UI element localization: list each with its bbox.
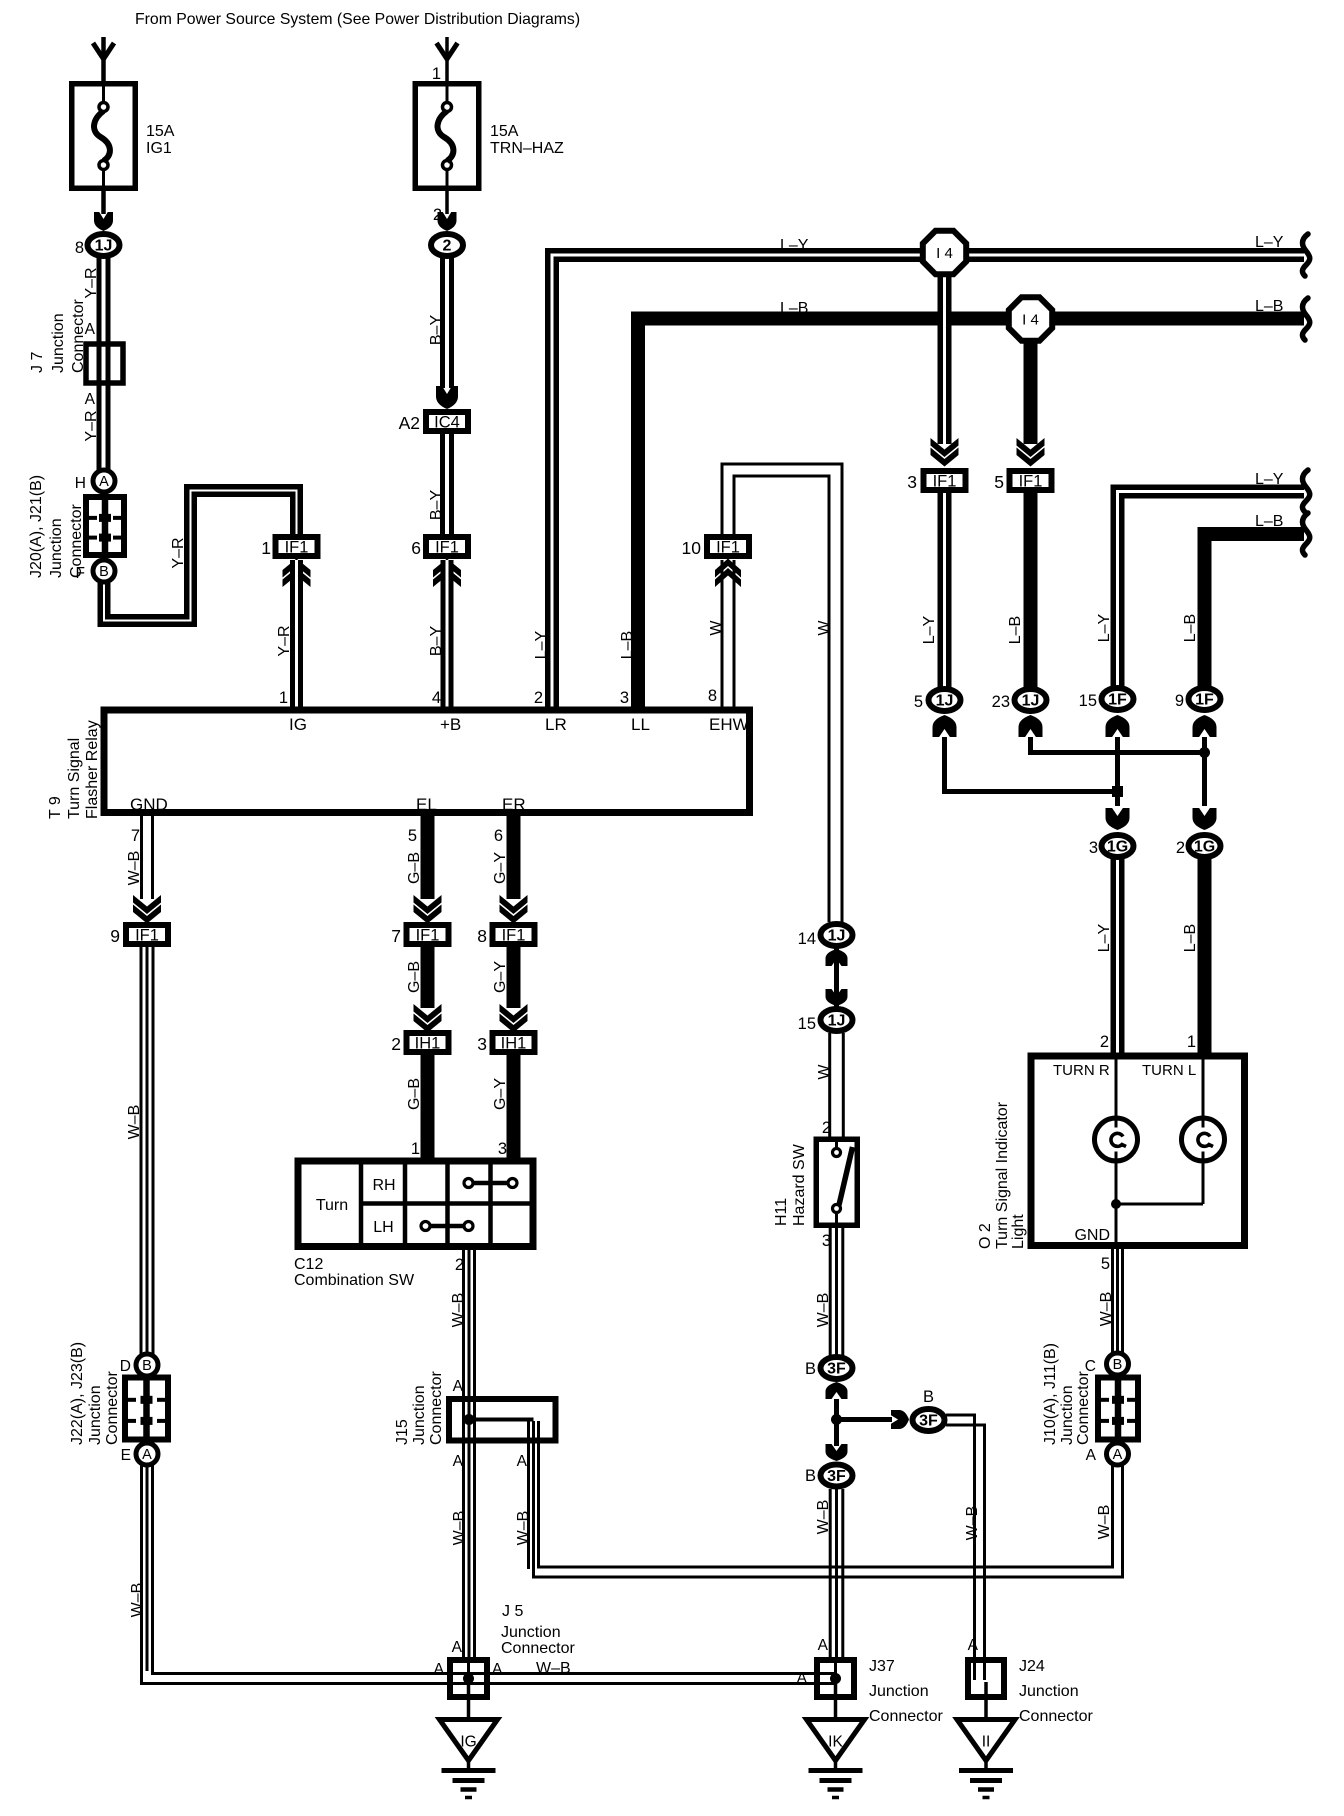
node junction L-B links [1199, 747, 1210, 758]
svg-text:1: 1 [411, 1140, 420, 1158]
wire W-B junction J5 to junction J37 [444, 1672, 834, 1675]
svg-text:A: A [492, 1661, 503, 1678]
svg-text:L–Y: L–Y [780, 237, 809, 254]
svg-text:6: 6 [494, 827, 503, 845]
svg-text:Connector: Connector [1019, 1708, 1093, 1725]
svg-text:J 5: J 5 [502, 1603, 523, 1620]
svg-text:B: B [142, 1358, 152, 1374]
svg-text:B–Y: B–Y [428, 315, 445, 346]
svg-text:W–B: W–B [964, 1506, 981, 1541]
svg-text:J10(A), J11(B): J10(A), J11(B) [1042, 1343, 1059, 1445]
svg-text:IK: IK [828, 1734, 843, 1751]
svg-text:1G: 1G [1107, 839, 1128, 856]
wire B-Y IF1 to relay +B pin 4 [441, 560, 454, 710]
svg-text:A: A [453, 1453, 464, 1470]
svg-text:Connector: Connector [869, 1708, 943, 1725]
svg-text:A: A [452, 1639, 463, 1656]
svg-text:J20(A), J21(B): J20(A), J21(B) [28, 475, 45, 578]
junction 3F upper [821, 1357, 853, 1379]
arrow into junction 3F lower [826, 1444, 848, 1461]
ground IK [807, 1720, 865, 1761]
circle A of J22 [136, 1443, 158, 1465]
svg-text:L–B: L–B [619, 631, 636, 659]
svg-text:W–B: W–B [129, 1583, 146, 1618]
svg-text:T 9: T 9 [47, 796, 64, 819]
wire link 1J-5 to node [945, 737, 1116, 792]
svg-text:2: 2 [433, 206, 442, 224]
connector IF1 pin 1 [276, 537, 318, 556]
svg-text:B–Y: B–Y [428, 626, 445, 657]
svg-text:3: 3 [477, 1034, 487, 1054]
svg-text:2: 2 [391, 1034, 401, 1054]
svg-text:1G: 1G [1194, 839, 1215, 856]
turn signal flasher relay T9 [104, 710, 750, 813]
svg-text:J15: J15 [394, 1419, 411, 1445]
connector IF1 pin 9 [126, 925, 168, 944]
junction 1G pin 3 [1102, 835, 1134, 857]
octagon I4 on L-Y bus [923, 231, 966, 274]
octagon I4 on L-B bus [1009, 297, 1052, 340]
svg-text:W–B: W–B [126, 851, 143, 886]
arrow into 3F right [891, 1410, 909, 1429]
wire W-B junction J37 to ground [834, 1679, 838, 1721]
svg-text:W–B: W–B [515, 1511, 532, 1546]
svg-text:EHW: EHW [709, 715, 749, 734]
bulb TURN R [1095, 1118, 1138, 1161]
svg-text:A: A [85, 391, 96, 408]
svg-text:A: A [1113, 1447, 1123, 1463]
svg-text:Connector: Connector [70, 299, 87, 373]
svg-text:3: 3 [822, 1232, 831, 1250]
connector IF1 pin 3 [924, 471, 966, 490]
svg-text:3F: 3F [827, 1361, 846, 1378]
arrow into IF1 pin 6 from below [433, 568, 461, 587]
svg-text:Junction: Junction [869, 1683, 929, 1700]
wire G-B IF1 pin 7 to IH1 pin 2 [421, 947, 435, 1008]
svg-text:IG1: IG1 [146, 140, 172, 157]
svg-text:A: A [434, 1661, 445, 1678]
svg-text:Y–R: Y–R [170, 537, 187, 568]
arrow into IF1 pin 1 from below [283, 568, 311, 587]
svg-text:Flasher Relay: Flasher Relay [84, 720, 101, 819]
arrow out of junction 1J pin 5 [933, 715, 957, 737]
arrow into IF1 pin 10 from below [715, 568, 741, 587]
junction 1J pin 23 [1015, 689, 1047, 711]
svg-text:3: 3 [1089, 839, 1098, 857]
svg-text:Junction: Junction [50, 313, 67, 373]
svg-text:Junction: Junction [1059, 1385, 1076, 1445]
svg-text:2: 2 [1176, 839, 1185, 857]
svg-text:IH1: IH1 [501, 1035, 527, 1053]
wire W-B hazard switch pin 3 to junction 3F [829, 1225, 832, 1356]
wire Y-R 1J to J7 junction connector [97, 245, 111, 341]
wire G-Y IH1 pin 3 to combination switch pin 3 [507, 1055, 521, 1162]
svg-text:J22(A), J23(B): J22(A), J23(B) [69, 1342, 86, 1445]
svg-text:W: W [816, 620, 833, 636]
wire W-B combination switch pin 2 to J15 [462, 1250, 465, 1400]
combination switch C12 [298, 1161, 533, 1247]
connector IH1 pin 3 [493, 1033, 535, 1052]
svg-text:L–B: L–B [1182, 924, 1199, 952]
svg-text:Light: Light [1010, 1214, 1027, 1249]
svg-text:9: 9 [1175, 692, 1184, 710]
svg-text:1J: 1J [936, 693, 954, 710]
wire link 1F-9 down [1202, 737, 1207, 806]
svg-text:8: 8 [477, 926, 487, 946]
node W-B chain junction [831, 1414, 842, 1425]
wire W-B J22 circle A to junction connector J5 [142, 1465, 451, 1684]
svg-text:2: 2 [1100, 1033, 1109, 1051]
svg-text:IF1: IF1 [502, 927, 526, 945]
wire W relay EHW pin 8 to IF1 pin 10 [721, 560, 724, 710]
svg-text:W–B: W–B [536, 1660, 571, 1677]
junction 2 [431, 234, 463, 256]
bulb TURN L [1182, 1118, 1225, 1161]
svg-text:From Power Source System (See: From Power Source System (See Power Dist… [135, 11, 580, 28]
svg-text:15: 15 [1079, 692, 1097, 710]
arrow into IF1 pin 9 [133, 895, 161, 914]
wire W-B relay GND pin 7 to IF1 pin 9 [140, 816, 143, 899]
wire from power source into fuse TRN-HAZ [445, 37, 449, 81]
bracket L-B bus continuation [1302, 298, 1309, 340]
wire L-Y right bus to junction 1F pin 15 [1118, 492, 1305, 689]
circle B of J10 [1107, 1353, 1129, 1375]
junction 1F pin 15 [1102, 688, 1134, 710]
svg-text:3: 3 [907, 472, 917, 492]
svg-text:Connector: Connector [428, 1371, 445, 1445]
wire fuse TRN-HAZ pin 2 to junction 2 [445, 191, 449, 214]
svg-text:G–Y: G–Y [492, 1078, 509, 1110]
svg-text:IF1: IF1 [1019, 473, 1043, 491]
wire W-B J10 circle A to junction connector J15 [534, 1421, 1123, 1577]
svg-text:G–B: G–B [406, 852, 423, 884]
svg-text:GND: GND [130, 795, 168, 814]
wire G-B relay EL pin 5 to IF1 pin 7 [421, 816, 435, 899]
svg-text:A: A [818, 1637, 829, 1654]
turn signal indicator light O2 box [1031, 1056, 1245, 1246]
svg-text:L–Y: L–Y [533, 630, 550, 659]
circle A of J10 [1107, 1443, 1129, 1465]
svg-text:ER: ER [502, 795, 526, 814]
svg-text:10: 10 [682, 538, 702, 558]
junction 1J pin 14 [821, 924, 853, 946]
junction connector J20(A) J21(B) [86, 497, 124, 555]
junction 1J pin 5 [929, 689, 961, 711]
arrow into IF1 pin 3 [931, 438, 959, 457]
svg-text:W: W [816, 1064, 833, 1080]
svg-text:L–Y: L–Y [921, 615, 938, 644]
svg-text:G–Y: G–Y [492, 852, 509, 884]
svg-text:1: 1 [432, 65, 441, 83]
wire link node to 3F right [837, 1417, 893, 1422]
svg-text:A: A [99, 474, 109, 490]
svg-text:IF1: IF1 [416, 927, 440, 945]
circle B of J20 [93, 560, 115, 582]
svg-text:3F: 3F [827, 1468, 846, 1485]
svg-text:B: B [805, 1360, 816, 1378]
wire W 1J-15 to hazard switch pin 2 [828, 1033, 831, 1139]
junction connector J24 [968, 1660, 1004, 1697]
wire L-B 1G-2 to indicator pin 1 [1198, 859, 1212, 1056]
arrow into 1J pin 15 [826, 989, 848, 1006]
svg-text:EL: EL [416, 795, 437, 814]
svg-text:8: 8 [75, 239, 84, 257]
wire from power source into fuse IG1 [101, 37, 106, 81]
svg-text:L–Y: L–Y [1255, 234, 1284, 251]
wire W-B J15 to junction J5 [462, 1400, 465, 1660]
arrow out of 1J pin 14 [826, 949, 848, 966]
junction 1J pin 8 [88, 234, 120, 256]
svg-text:14: 14 [798, 930, 816, 948]
wire Y-R IF1 to relay IG pin 1 [290, 560, 303, 710]
wire W-B indicator GND pin 5 to J10 circle B [1111, 1249, 1114, 1353]
svg-text:TURN R: TURN R [1053, 1062, 1110, 1079]
svg-text:Turn Signal Indicator: Turn Signal Indicator [994, 1101, 1011, 1249]
bracket L-Y bus continuation [1302, 234, 1309, 276]
wire L-B IF1 pin 5 to junction 1J pin 23 [1024, 493, 1038, 688]
svg-text:5: 5 [914, 693, 923, 711]
svg-text:C12: C12 [294, 1256, 323, 1273]
wire L-Y 1G-3 to indicator pin 2 [1111, 859, 1125, 1056]
wire W-B junction J24 to ground [984, 1682, 988, 1720]
svg-text:15A: 15A [146, 123, 175, 140]
svg-text:1J: 1J [1022, 693, 1040, 710]
wire B-Y IC4 to connector IF1 pin 6 [440, 430, 454, 534]
svg-text:J24: J24 [1019, 1658, 1045, 1675]
svg-text:1F: 1F [1195, 692, 1214, 709]
bracket L-Y right continuation [1302, 470, 1309, 512]
svg-text:L–B: L–B [1255, 513, 1283, 530]
svg-text:1: 1 [1187, 1033, 1196, 1051]
svg-text:B–Y: B–Y [428, 490, 445, 521]
ground II [957, 1720, 1015, 1761]
junction connector J22(A) J23(B) [125, 1378, 168, 1440]
svg-text:4: 4 [432, 689, 441, 707]
svg-text:IG: IG [460, 1734, 476, 1751]
svg-text:B: B [805, 1467, 816, 1485]
svg-text:L–Y: L–Y [1255, 471, 1284, 488]
svg-text:H: H [75, 475, 86, 492]
wire L-Y relay LR pin 2 to right edge bus [552, 255, 1304, 710]
svg-text:Turn Signal: Turn Signal [66, 738, 83, 819]
svg-text:6: 6 [411, 538, 421, 558]
svg-text:LR: LR [545, 715, 567, 734]
connector IF1 pin 7 [407, 925, 449, 944]
svg-text:7: 7 [131, 827, 140, 845]
junction 1F pin 9 [1189, 688, 1221, 710]
svg-text:O 2: O 2 [977, 1223, 994, 1249]
wire W-B 3F right to junction connector J24 [946, 1415, 975, 1680]
svg-text:1J: 1J [828, 1013, 846, 1030]
svg-text:Y–R: Y–R [83, 267, 100, 298]
svg-text:1F: 1F [1108, 692, 1127, 709]
svg-text:A: A [142, 1447, 152, 1463]
svg-text:3F: 3F [919, 1413, 938, 1430]
svg-text:1: 1 [261, 538, 271, 558]
svg-text:I 4: I 4 [1022, 312, 1039, 329]
bracket L-B right continuation [1302, 513, 1309, 555]
junction connector J15 [449, 1399, 556, 1441]
wire Y-R J20 circle B to connector IF1 pin 1 [104, 491, 297, 621]
svg-text:RH: RH [372, 1177, 395, 1194]
ground IG [440, 1720, 498, 1761]
svg-text:Connector: Connector [68, 504, 85, 578]
wire W-B 3F lower to junction connector J37 [829, 1489, 832, 1660]
svg-text:Y–R: Y–R [83, 410, 100, 441]
wire W-B IF1 pin 9 to J22 circle B [140, 947, 143, 1354]
svg-text:2: 2 [443, 238, 452, 255]
svg-text:W: W [708, 620, 725, 636]
svg-text:IF1: IF1 [285, 539, 309, 557]
arrow into IF1 pin 8 [500, 895, 528, 914]
svg-text:2: 2 [822, 1119, 831, 1137]
svg-text:J 7: J 7 [29, 352, 46, 373]
arrow out of junction 1F pin 15 [1106, 715, 1130, 737]
svg-text:W–B: W–B [450, 1293, 467, 1328]
svg-text:Junction: Junction [501, 1624, 561, 1641]
arrow out of junction 1F pin 9 [1193, 715, 1217, 737]
connector IF1 pin 10 [707, 537, 749, 556]
junction connector J7 [86, 344, 123, 383]
svg-text:A: A [1086, 1447, 1097, 1464]
arrow into IH1 pin 2 [414, 1004, 442, 1023]
svg-text:A2: A2 [399, 413, 420, 433]
junction connector J5 [450, 1660, 487, 1697]
svg-text:23: 23 [992, 693, 1010, 711]
svg-text:2: 2 [534, 689, 543, 707]
circle B of J22 [136, 1354, 158, 1376]
svg-text:W–B: W–B [1096, 1505, 1113, 1540]
connector IF1 pin 8 [493, 925, 535, 944]
fuse 15A TRN-HAZ [415, 84, 479, 189]
svg-text:+B: +B [440, 715, 461, 734]
wire link 3F to node [834, 1399, 839, 1446]
arrow into 1G pin 3 [1106, 808, 1130, 830]
wire L-B octagon I4 to IF1 pin 5 [1024, 340, 1038, 444]
svg-text:II: II [982, 1734, 991, 1751]
svg-text:I 4: I 4 [936, 245, 953, 262]
svg-text:7: 7 [391, 926, 401, 946]
svg-text:IF1: IF1 [933, 473, 957, 491]
wire link between 1J 14 and 1J 15 [834, 948, 839, 1007]
svg-text:L–B: L–B [780, 300, 808, 317]
svg-text:Connector: Connector [501, 1640, 575, 1657]
circle A of J20 [93, 470, 115, 492]
svg-text:1: 1 [279, 689, 288, 707]
junction 3F right [913, 1409, 945, 1431]
svg-text:B: B [99, 564, 109, 580]
svg-text:G–B: G–B [406, 961, 423, 993]
svg-text:A: A [797, 1670, 808, 1687]
wire B-Y junction 2 to connector IC4 [440, 258, 454, 388]
svg-text:Connector: Connector [104, 1371, 121, 1445]
svg-text:L–Y: L–Y [1096, 923, 1113, 952]
arrow into IH1 pin 3 [500, 1004, 528, 1023]
svg-text:A: A [453, 1378, 464, 1395]
svg-text:IH1: IH1 [415, 1035, 441, 1053]
wire fuse IG1 to junction 1J [101, 191, 106, 214]
svg-text:L–Y: L–Y [1096, 613, 1113, 642]
svg-text:W–B: W–B [126, 1105, 143, 1140]
fuse 15A IG1 [72, 84, 136, 189]
svg-text:G–B: G–B [406, 1078, 423, 1110]
arrow out of junction 1J pin 23 [1019, 715, 1043, 737]
arrow into 1G pin 2 [1193, 808, 1217, 830]
svg-text:H11: H11 [773, 1198, 790, 1226]
svg-text:1J: 1J [95, 238, 113, 255]
svg-text:3: 3 [498, 1140, 507, 1158]
arrow out of junction 3F upper [826, 1382, 848, 1399]
svg-text:IF1: IF1 [716, 539, 740, 557]
junction 1G pin 2 [1189, 835, 1221, 857]
svg-text:B: B [1113, 1357, 1123, 1373]
svg-text:Turn: Turn [316, 1197, 348, 1214]
wire W IF1 pin 10 up and over to hazard branch [722, 464, 842, 922]
svg-text:2: 2 [455, 1256, 464, 1274]
arrow into IC4 [436, 386, 458, 409]
svg-text:Junction: Junction [411, 1385, 428, 1445]
connector IF1 pin 5 [1010, 471, 1052, 490]
junction 3F lower [821, 1465, 853, 1487]
connector IH1 pin 2 [407, 1033, 449, 1052]
svg-text:Junction: Junction [48, 518, 65, 578]
wire G-Y IF1 pin 8 to IH1 pin 3 [507, 947, 521, 1008]
connector IC4 pin A2 [426, 412, 468, 431]
svg-text:Connector: Connector [1075, 1371, 1092, 1445]
svg-text:L–B: L–B [1255, 298, 1283, 315]
svg-text:15A: 15A [490, 123, 519, 140]
svg-text:IF1: IF1 [435, 539, 459, 557]
node junction L-Y links [1112, 786, 1123, 797]
svg-text:W–B: W–B [1098, 1292, 1115, 1327]
svg-text:D: D [120, 1358, 131, 1375]
arrow into IF1 pin 7 [414, 895, 442, 914]
svg-text:B: B [923, 1388, 934, 1406]
svg-text:IF1: IF1 [135, 927, 159, 945]
svg-text:TURN L: TURN L [1142, 1062, 1196, 1079]
svg-text:J37: J37 [869, 1658, 895, 1675]
svg-text:W–B: W–B [451, 1511, 468, 1546]
svg-text:Junction: Junction [1019, 1683, 1079, 1700]
wire L-B relay LL pin 3 to right edge bus [638, 319, 1304, 711]
wire L-Y octagon I4 to IF1 pin 3 [938, 275, 952, 444]
svg-text:5: 5 [994, 472, 1004, 492]
junction connector J37 [817, 1660, 854, 1697]
svg-text:E: E [121, 1447, 131, 1464]
wire Y-R J7 to J20 circle A [97, 341, 111, 480]
wire link 1F-15 down [1115, 737, 1120, 806]
svg-text:Hazard SW: Hazard SW [791, 1143, 808, 1226]
svg-text:3: 3 [620, 689, 629, 707]
arrow into IF1 pin 5 [1017, 438, 1045, 457]
svg-text:5: 5 [1101, 1255, 1110, 1273]
svg-text:A: A [517, 1453, 528, 1470]
svg-text:LH: LH [373, 1219, 393, 1236]
svg-text:15: 15 [798, 1015, 816, 1033]
svg-text:W–B: W–B [815, 1293, 832, 1328]
svg-text:W–B: W–B [815, 1500, 832, 1535]
svg-text:LL: LL [631, 715, 650, 734]
svg-text:L–B: L–B [1007, 616, 1024, 644]
arrow into junction 2 [438, 212, 457, 231]
wire G-Y relay ER pin 6 to IF1 pin 8 [507, 816, 521, 899]
wire G-B IH1 pin 2 to combination switch pin 1 [421, 1055, 435, 1162]
junction 1J pin 15b [821, 1009, 853, 1031]
svg-text:5: 5 [408, 827, 417, 845]
svg-text:TRN–HAZ: TRN–HAZ [490, 140, 564, 157]
svg-text:Y–R: Y–R [276, 625, 293, 656]
svg-text:G–Y: G–Y [492, 961, 509, 993]
